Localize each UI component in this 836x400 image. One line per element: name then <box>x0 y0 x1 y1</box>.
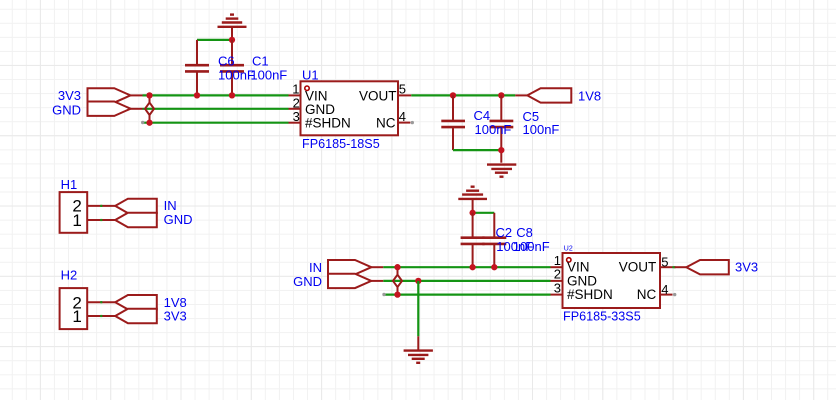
wire GND branch down <box>417 281 419 336</box>
svg-text:C1: C1 <box>252 54 269 69</box>
netflag 3V3 (input) <box>88 88 131 102</box>
junction C5/out <box>498 92 504 98</box>
U1 pin4 dangling dot <box>411 121 414 124</box>
svg-text:IN: IN <box>309 260 322 275</box>
connector H1 body <box>60 192 88 233</box>
svg-text:GND: GND <box>164 212 193 227</box>
dangling end dot bottom row3 <box>382 293 385 296</box>
svg-text:5: 5 <box>399 82 406 97</box>
netflag 3V3 (U2 output) <box>686 260 729 274</box>
U1 pin 1 stub <box>289 94 301 96</box>
flag stub 3V3 out <box>675 266 687 268</box>
svg-text:#SHDN: #SHDN <box>305 116 351 131</box>
H1 pin2 wire nub <box>100 205 102 207</box>
ground GND2 (below C5) <box>487 165 516 177</box>
svg-text:100nF: 100nF <box>523 122 560 137</box>
U2 pin4 dangling dot <box>673 293 676 296</box>
svg-text:1: 1 <box>292 82 299 97</box>
junction bottom row2 / ground branch <box>415 278 421 284</box>
U1 pin 5 stub <box>398 94 411 96</box>
H1 pin 2 stub <box>87 205 115 207</box>
wire U2 VOUT <box>673 266 676 268</box>
junction C2 bottom <box>469 264 475 270</box>
junction row3 <box>146 120 152 126</box>
wire bottom row3 #SHDN <box>384 294 551 296</box>
vertical tie with diamond at x=149.5 <box>145 95 154 122</box>
svg-text:100nF: 100nF <box>475 122 512 137</box>
svg-text:C8: C8 <box>516 225 533 240</box>
svg-text:3V3: 3V3 <box>164 309 187 324</box>
svg-text:1: 1 <box>72 211 81 230</box>
U1 pin 3 stub <box>289 122 301 124</box>
junction C5 bottom <box>498 147 504 153</box>
junction row1 <box>146 92 152 98</box>
op-amp U2 FP6185-33S5 body <box>563 253 661 308</box>
svg-text:FP6185-33S5: FP6185-33S5 <box>563 310 641 324</box>
U2 pin1 polarity circle <box>567 258 571 262</box>
capacitor C1 <box>220 40 244 96</box>
flag stub IN <box>371 266 383 268</box>
H1 pin1 wire nub <box>100 219 102 221</box>
svg-text:NC: NC <box>637 287 657 302</box>
capacitor C4 <box>441 95 465 150</box>
svg-text:NC: NC <box>376 116 396 131</box>
netflag 1V8 (output) <box>527 88 571 102</box>
svg-text:U2: U2 <box>564 246 573 253</box>
svg-text:VIN: VIN <box>567 260 590 275</box>
capacitor C2 <box>461 213 485 267</box>
U2 pin 4 stub <box>660 294 673 296</box>
op-amp U1 FP6185-18S5 body <box>301 81 399 135</box>
wire ground to C6 top <box>197 39 232 41</box>
U2 pin 2 stub <box>551 280 563 282</box>
wire bottom row1 IN <box>383 266 550 268</box>
ground GND3 (above C2, flipped earth) <box>458 187 487 213</box>
svg-text:3V3: 3V3 <box>735 259 758 274</box>
junction ground/C2 <box>469 210 475 216</box>
svg-text:4: 4 <box>661 282 668 297</box>
H2 pin2 wire nub <box>100 301 102 303</box>
svg-text:100nF: 100nF <box>513 239 550 254</box>
svg-text:3: 3 <box>554 280 561 295</box>
svg-text:100nF: 100nF <box>250 68 287 83</box>
svg-text:VOUT: VOUT <box>619 260 657 275</box>
H1 pin 1 stub <box>87 219 115 221</box>
wire VOUT net 1V8 <box>411 94 515 96</box>
flag stub 1V8 <box>515 94 527 96</box>
junction bottom row3 <box>394 291 400 297</box>
U1 pin1 polarity circle <box>305 86 309 90</box>
U2 pin 3 stub <box>551 294 563 296</box>
junction C6/row1 <box>194 92 200 98</box>
flag stub GND <box>131 108 143 110</box>
junction C4/out <box>450 92 456 98</box>
junction C8 bottom <box>491 264 497 270</box>
netflag 1V8 (H2) <box>115 295 157 309</box>
wire C4 bottom to C5 bottom <box>453 149 501 151</box>
H2 pin 2 stub <box>87 301 115 303</box>
junction C1/row1 <box>229 92 235 98</box>
junction at ground/C1 <box>229 37 235 43</box>
svg-text:1: 1 <box>554 253 561 268</box>
svg-text:GND: GND <box>293 274 322 289</box>
H2 pin1 wire nub <box>100 315 102 317</box>
svg-text:VOUT: VOUT <box>359 88 397 103</box>
junction bottom row1 <box>394 264 400 270</box>
svg-text:4: 4 <box>399 109 406 124</box>
U2 pin 1 stub <box>551 266 563 268</box>
ground GND1 (top, flipped earth) <box>218 15 247 40</box>
netflag GND (input) <box>88 102 131 116</box>
netflag GND (bottom input) <box>328 274 371 288</box>
svg-text:3V3: 3V3 <box>58 88 81 103</box>
capacitor C8 <box>482 213 506 267</box>
ground GND4 (bottom) <box>404 336 433 363</box>
svg-text:H2: H2 <box>61 268 78 283</box>
svg-text:IN: IN <box>164 198 177 213</box>
capacitor C6 <box>185 40 209 96</box>
wire row3 to #SHDN <box>143 122 289 124</box>
svg-text:GND: GND <box>52 102 81 117</box>
svg-text:100nF: 100nF <box>218 68 255 83</box>
svg-text:#SHDN: #SHDN <box>567 287 613 302</box>
vertical tie with diamond at x=397.5 <box>393 267 402 294</box>
capacitor C5 <box>490 95 514 162</box>
svg-text:H1: H1 <box>61 177 78 192</box>
flag stub GND <box>371 280 383 282</box>
wire net GND row2 <box>143 108 289 110</box>
dangling end dot row3 <box>141 121 144 124</box>
wire ground to C8 top <box>473 212 495 214</box>
svg-text:5: 5 <box>661 254 668 269</box>
U1 pin 4 stub <box>398 122 410 124</box>
U1 pin 2 stub <box>289 108 301 110</box>
svg-text:1V8: 1V8 <box>578 88 601 103</box>
U2 pin 5 stub <box>660 266 673 268</box>
netflag IN (bottom input) <box>328 260 371 274</box>
svg-text:3: 3 <box>293 109 300 124</box>
connector H2 body <box>60 288 88 329</box>
svg-text:1: 1 <box>72 307 81 326</box>
svg-text:C6: C6 <box>218 54 235 69</box>
svg-text:C2: C2 <box>496 225 513 240</box>
netflag GND (H1) <box>115 213 157 227</box>
svg-text:FP6185-18S5: FP6185-18S5 <box>302 137 380 151</box>
H2 pin 1 stub <box>87 315 115 317</box>
wire bottom row2 GND <box>383 280 550 282</box>
netflag IN (H1) <box>115 199 157 213</box>
svg-text:U1: U1 <box>302 67 319 82</box>
wire net 3V3 row1 <box>143 94 289 96</box>
flag stub 3V3 <box>131 94 143 96</box>
netflag 3V3 (H2) <box>115 309 157 323</box>
